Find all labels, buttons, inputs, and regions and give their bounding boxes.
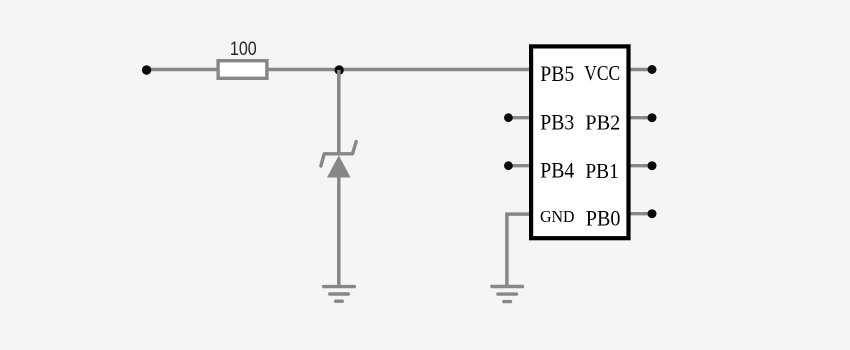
pin stub PB3 (left) (508, 116, 531, 119)
wire: junction down to zener cathode (337, 70, 341, 154)
ground symbol (below zener) (324, 287, 355, 302)
zener diode D1 (321, 142, 356, 178)
svg-text:PB1: PB1 (585, 159, 618, 183)
node: left terminal dot (142, 65, 151, 74)
node dot PB4 (504, 161, 513, 170)
ground symbol (below GND pin) (492, 287, 523, 302)
svg-text:GND: GND (540, 207, 575, 226)
node dot PB1 (648, 161, 657, 170)
pin stub PB0 (right) (629, 212, 652, 215)
svg-text:VCC: VCC (584, 61, 620, 85)
svg-text:100: 100 (230, 39, 257, 60)
pin stub VCC (right) (629, 68, 652, 71)
pin stub PB1 (right) (629, 164, 652, 167)
pin stub PB4 (left) (508, 164, 531, 167)
svg-text:PB2: PB2 (585, 110, 620, 134)
pin stub PB2 (right) (629, 116, 652, 119)
node dot PB2 (648, 113, 657, 122)
wire: left terminal to resistor (147, 68, 218, 71)
svg-text:PB0: PB0 (586, 206, 621, 231)
svg-text:PB3: PB3 (540, 109, 574, 134)
wire: resistor to IC pin PB5 (267, 68, 530, 71)
svg-text:PB4: PB4 (540, 158, 574, 183)
wire: zener anode down to ground (337, 177, 341, 286)
node dot PB3 (504, 113, 513, 122)
node dot PB0 (648, 209, 657, 218)
wire: GND pin trace (507, 214, 530, 285)
resistor R1 (218, 61, 267, 79)
node: junction dot (335, 65, 344, 74)
IC U1 body (531, 46, 628, 238)
node dot VCC (648, 65, 657, 74)
svg-text:PB5: PB5 (540, 61, 574, 86)
